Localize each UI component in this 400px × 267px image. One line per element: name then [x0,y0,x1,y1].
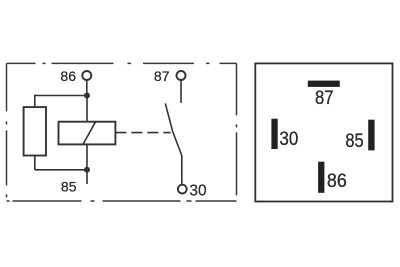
wire down to resistor top [34,95,36,107]
svg-text:86: 86 [327,170,347,192]
relay enclosure dash-dot outline: bottom side [7,200,237,202]
wire from resistor bottom down [34,156,36,170]
svg-text:30: 30 [189,182,207,199]
pin 85 blade (vertical bar) [368,120,374,151]
resistor (parallel to coil) [24,107,46,155]
relay enclosure dash-dot outline: left side [6,63,8,201]
pin 30 blade (vertical bar) [271,119,277,149]
wire from resistor branch right to junction (85 node) [35,169,87,171]
junction dot (85 node) [84,167,90,173]
wire from terminal 87 down to switch contact [180,80,182,103]
coil slash [83,122,96,145]
svg-text:86: 86 [60,68,76,84]
wire from terminal 86 down to junction [86,80,88,96]
relay coil K1 (rectangle with slash) [59,122,116,145]
mechanical link dashed line from coil to switch [115,132,170,134]
pin-layout box (relay base view) [255,63,392,201]
svg-text:30: 30 [279,128,298,150]
terminal 87 circle [177,71,186,80]
svg-text:85: 85 [345,130,363,152]
pin 86 blade (vertical bar) [318,162,324,193]
terminal 86 circle [82,71,91,80]
wire from junction left to resistor branch [35,95,87,97]
wire from coil bottom to junction (85 node) [86,144,88,169]
junction dot (86 node) [84,93,90,99]
relay enclosure dash-dot outline: top side [7,62,237,64]
pin 87 blade (horizontal bar) [308,81,340,87]
terminal 30 circle [178,185,187,194]
svg-text:87: 87 [154,68,170,84]
wire from switch arm down to terminal 30 [181,156,183,186]
relay enclosure dash-dot outline: right side [236,63,238,201]
switch arm (movable contact) [165,103,182,155]
svg-text:85: 85 [61,179,77,195]
terminal 85 stub wire [86,170,88,184]
wire from junction down through coil path [86,96,88,122]
svg-text:87: 87 [315,87,334,109]
